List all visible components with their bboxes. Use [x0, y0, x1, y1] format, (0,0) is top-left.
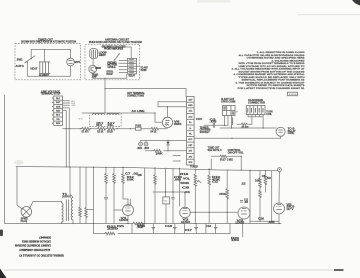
- svg-text:C18: C18: [206, 226, 212, 228]
- capacitor C9: [172, 168, 174, 196]
- junction dots on divider: [66, 166, 67, 167]
- resistor R17: [210, 159, 212, 169]
- resistor R23 100K: [145, 150, 154, 152]
- svg-text:FIL: FIL: [108, 125, 115, 127]
- svg-text:ELEMENT: ELEMENT: [39, 75, 50, 77]
- wire coil to transistor: [92, 58, 94, 65]
- motor B1: [67, 58, 75, 66]
- wire bus: [220, 127, 276, 129]
- wires connector drops: [224, 116, 226, 126]
- wire V3 to V4: [250, 220, 279, 222]
- wire cap bus: [141, 140, 187, 142]
- svg-text:R21: R21: [117, 226, 125, 228]
- fuse F1: [136, 127, 142, 130]
- tube V3: [238, 207, 250, 219]
- wire rectifier plate: [167, 107, 169, 117]
- variable arrow: [114, 53, 120, 60]
- antenna enclosure dashed box: [85, 44, 139, 80]
- component box Z1: [165, 168, 167, 197]
- wire to ant terminal: [136, 65, 139, 67]
- switch SW1: [25, 56, 36, 63]
- svg-text:FOR LATEST PRODUCTION CHANGES: FOR LATEST PRODUCTION CHANGES 330947 R1: [238, 87, 306, 90]
- svg-text:FUSE: FUSE: [135, 125, 141, 127]
- svg-text:R3 2K: R3 2K: [107, 131, 113, 133]
- wire far-left return: [5, 95, 22, 224]
- svg-text:GRN: GRN: [56, 106, 61, 108]
- wire transformer tap: [86, 208, 94, 210]
- wire element feed: [44, 50, 46, 62]
- svg-text:RELAY: RELAY: [129, 75, 136, 78]
- svg-text:R4 1K: R4 1K: [151, 130, 157, 133]
- relay tube E: [276, 127, 285, 136]
- wire bottom bus: [93, 73, 127, 78]
- transformer leads: [61, 222, 63, 224]
- svg-text:WITH VTVM FROM SOCKET TERMINAL: WITH VTVM FROM SOCKET TERMINALS TO B MIN…: [239, 62, 306, 65]
- svg-text:3. ALL VOLTAGES MEASURED WITH: 3. ALL VOLTAGES MEASURED WITH ANTENNA IN…: [232, 68, 306, 71]
- rectifier tube V6: [162, 117, 172, 127]
- wire V2 to V3: [190, 211, 238, 213]
- connector J1: [223, 106, 236, 116]
- svg-text:330947: 330947: [38, 235, 51, 239]
- wire ground rail: [21, 223, 133, 225]
- resistor R9: [113, 167, 115, 173]
- svg-text:BRN: BRN: [56, 123, 61, 125]
- resistor R7: [85, 167, 87, 207]
- wire B- drop: [93, 167, 95, 233]
- part number box: [288, 92, 298, 96]
- svg-text:R1 470: R1 470: [82, 130, 90, 133]
- winding L3: [107, 114, 119, 115]
- resistor R5: [237, 123, 241, 125]
- resistor R13: [226, 170, 228, 189]
- wire drop: [144, 168, 146, 224]
- resistor R21 on rail: [133, 222, 143, 224]
- svg-text:C16: C16: [165, 226, 173, 228]
- svg-text:500K: 500K: [180, 183, 189, 185]
- svg-text:PHONO AMPLIFIER: PHONO AMPLIFIER: [104, 48, 123, 51]
- svg-text:12AB5: 12AB5: [235, 222, 245, 225]
- resistor R16: [264, 171, 266, 175]
- svg-text:SEE NOTE 3: SEE NOTE 3: [208, 150, 223, 152]
- svg-text:COIL: COIL: [266, 114, 272, 116]
- wire antenna lead: [104, 78, 106, 113]
- svg-text:12AV6: 12AV6: [181, 221, 191, 224]
- tube V1: [123, 205, 134, 216]
- svg-text:VOL: VOL: [183, 179, 191, 181]
- scan paper edge bottom: [4, 269, 333, 271]
- svg-text:100K: 100K: [127, 179, 134, 181]
- output transformer T1: [62, 203, 64, 222]
- svg-text:35W4: 35W4: [174, 123, 182, 126]
- svg-text:NOTICE REFER TO SERVICE DATA S: NOTICE REFER TO SERVICE DATA SHEETS: [247, 84, 306, 87]
- wire drop: [249, 171, 251, 224]
- diode CR1: [166, 142, 170, 145]
- terminal strip TS1: [54, 96, 63, 125]
- svg-text:TERM: TERM: [140, 70, 146, 72]
- wire V3 cathode stub: [242, 219, 244, 237]
- winding L2: [93, 114, 105, 115]
- wire drop: [271, 171, 273, 221]
- coil L4 on drop: [232, 118, 233, 125]
- svg-text:5. THIS SCHEMATIC IS SUBJECT T: 5. THIS SCHEMATIC IS SUBJECT TO CHANGE W…: [236, 81, 306, 84]
- resistor R10: [122, 167, 124, 173]
- svg-text:L4: L4: [230, 125, 232, 127]
- heater element HR1: [39, 62, 50, 74]
- svg-text:GENERAL ELECTRIC CO LOUISVILLE: GENERAL ELECTRIC CO LOUISVILLE KY: [19, 254, 64, 258]
- svg-text:12AU6: 12AU6: [119, 219, 129, 222]
- svg-text:.005: .005: [174, 179, 182, 181]
- svg-text:R2 1K: R2 1K: [97, 131, 103, 133]
- svg-text:BLU: BLU: [56, 115, 61, 117]
- wire main B- bus: [16, 167, 278, 171]
- resistor R6: [79, 167, 81, 207]
- svg-text:AC LINE: AC LINE: [132, 110, 146, 113]
- svg-text:MOT: MOT: [75, 62, 81, 64]
- tube V4: [278, 172, 280, 204]
- svg-text:ANT: ANT: [99, 54, 107, 57]
- resistor R8: [105, 167, 107, 173]
- svg-text:CABINET SCHEMATIC DIAGRAM: CABINET SCHEMATIC DIAGRAM: [14, 243, 51, 247]
- wire AC line: [82, 113, 162, 122]
- svg-text:OUTPUT: OUTPUT: [62, 196, 72, 198]
- svg-text:AF2: AF2: [189, 155, 193, 158]
- svg-text:OTHERWISE NOTED AND SPECIFIED: OTHERWISE NOTED AND SPECIFIED HERE: [247, 57, 306, 60]
- svg-text:RED: RED: [56, 111, 61, 113]
- svg-text:TUNER: TUNER: [190, 167, 198, 169]
- svg-text:ON-OFF VOL: ON-OFF VOL: [228, 152, 245, 154]
- svg-text:TERMINAL STRIP: TERMINAL STRIP: [41, 93, 61, 96]
- svg-text:CONNECTOR: CONNECTOR: [248, 102, 265, 104]
- capacitor C3: [204, 124, 213, 126]
- svg-text:C17: C17: [185, 230, 193, 232]
- svg-text:SW1: SW1: [17, 59, 24, 61]
- resistor R11: [154, 168, 156, 175]
- svg-text:BLK: BLK: [56, 98, 61, 100]
- svg-text:ALL CAPACITOR VALUES IN MICROF: ALL CAPACITOR VALUES IN MICROFARADS UNLE…: [239, 54, 306, 57]
- resistor R4: [151, 127, 158, 130]
- ground symbols: [152, 228, 218, 230]
- wire B+ bus: [63, 128, 82, 130]
- svg-text:CATALOG NUMBER 33612: CATALOG NUMBER 33612: [22, 239, 51, 243]
- wire arrows into strip: [173, 155, 180, 157]
- capacitor C11 cluster: [240, 200, 243, 202]
- svg-text:1 MEG: 1 MEG: [227, 159, 233, 161]
- svg-text:AVC: AVC: [188, 138, 193, 141]
- connector J2: [246, 106, 265, 115]
- resistor R15: [259, 190, 262, 197]
- antenna coil L1: [90, 49, 98, 59]
- wire relay feed: [111, 47, 131, 58]
- wire drop: [178, 168, 180, 206]
- svg-text:4 POLE: 4 POLE: [107, 66, 115, 69]
- resistor R19: [208, 169, 210, 175]
- capacitor C5: [104, 196, 108, 198]
- chassis terminal strip TS2: [187, 97, 195, 166]
- wire B- rail: [94, 233, 106, 235]
- svg-text:SPK: SPK: [188, 162, 193, 164]
- svg-text:LINE VOLTAGE 117V AC NO SIGNAL: LINE VOLTAGE 117V AC NO SIGNAL APPLIED T…: [239, 65, 305, 68]
- speaker LS1: [17, 167, 23, 210]
- wire long vertical pair: [63, 111, 67, 167]
- wire V2 plate: [153, 192, 185, 207]
- node ring: [278, 168, 282, 172]
- potentiometer R18: [194, 169, 196, 174]
- scan mark top-right corner: [352, 0, 360, 6]
- scan mark left edge: [0, 230, 3, 237]
- svg-text:4. CONDENSERS MARKED WITH ASTE: 4. CONDENSERS MARKED WITH ASTERISK ARE S…: [234, 73, 306, 76]
- svg-text:R17: R17: [220, 159, 227, 161]
- relay pin wires: [119, 60, 128, 72]
- svg-text:GND: GND: [188, 105, 193, 107]
- scan mark bottom-left corner: [0, 269, 7, 278]
- svg-text:R18: R18: [180, 174, 189, 176]
- resistor R2: [97, 127, 105, 130]
- svg-text:C20: C20: [258, 219, 265, 221]
- svg-text:2N35: 2N35: [95, 68, 101, 70]
- scan dark dash bottom-right: [334, 269, 344, 271]
- svg-text:HEAT: HEAT: [30, 67, 38, 70]
- svg-text:SOCKET SHOWN FROM BOTTOM OF TH: SOCKET SHOWN FROM BOTTOM OF THE CHASSIS: [239, 70, 306, 73]
- scan faint line top-right: [298, 14, 360, 16]
- tube V2: [180, 207, 191, 218]
- svg-text:C12: C12: [212, 182, 219, 184]
- svg-text:SPKR CONN: SPKR CONN: [221, 101, 235, 103]
- wire arrows to line: [63, 101, 69, 105]
- scan smudge top-middle: [197, 0, 230, 3]
- svg-text:100K: 100K: [156, 154, 163, 156]
- junction dots: [80, 128, 81, 129]
- svg-text:CONNECTIONS: CONNECTIONS: [127, 95, 144, 97]
- svg-text:SOCKET: SOCKET: [200, 132, 211, 134]
- svg-text:ELECTRONIC ASSEMBLY: ELECTRONIC ASSEMBLY: [19, 248, 50, 252]
- svg-text:TO RCVR: TO RCVR: [196, 119, 202, 121]
- wire lower bus: [280, 136, 282, 138]
- svg-text:60 C: 60 C: [96, 125, 102, 127]
- filter caps C1 C2: [139, 142, 143, 146]
- svg-text:TYPES AND SHOULD BE REPLACED O: TYPES AND SHOULD BE REPLACED ONLY WITH: [239, 76, 306, 79]
- svg-text:330947: 330947: [289, 94, 299, 96]
- svg-text:470K: 470K: [219, 193, 226, 196]
- resistor R3: [107, 127, 115, 130]
- timer enclosure dashed box: [15, 44, 81, 80]
- resistor R14 15K: [259, 171, 261, 178]
- svg-text:B-: B-: [189, 128, 191, 130]
- resistor R1: [82, 127, 90, 130]
- svg-text:GRN: GRN: [71, 105, 76, 107]
- svg-text:WHEN RADIO AND PHONO ARE PLAYE: WHEN RADIO AND PHONO ARE PLAYED TOGETHER: [89, 41, 142, 44]
- svg-text:IDENTICAL REPLACEMENT PART NUM: IDENTICAL REPLACEMENT PART NUMBERS AS: [242, 79, 306, 82]
- rail link wires: [131, 224, 133, 234]
- wire speaker to transformer: [30, 201, 62, 207]
- power transformer dashed box: [90, 113, 122, 127]
- svg-text:117 V: 117 V: [286, 209, 294, 211]
- wire bottom rail: [27, 63, 70, 77]
- svg-text:COIL: COIL: [288, 133, 296, 135]
- svg-text:AUTO: AUTO: [16, 65, 24, 68]
- relay K1: [128, 58, 137, 74]
- svg-text:AC2: AC2: [188, 115, 192, 118]
- svg-text:1. ALL RESISTORS IN OHMS K=100: 1. ALL RESISTORS IN OHMS K=1000: [257, 51, 306, 54]
- svg-text:PICKUP: PICKUP: [106, 74, 113, 76]
- transistor Q1: [89, 65, 97, 73]
- svg-text:117V: 117V: [79, 118, 84, 120]
- svg-text:2. VOLTAGES MEASURED: 2. VOLTAGES MEASURED: [272, 59, 306, 62]
- resistor R22: [105, 232, 115, 235]
- scan pencil smudge: [15, 160, 24, 165]
- wire strip feed upper: [158, 101, 187, 103]
- svg-text:15K: 15K: [255, 180, 260, 182]
- wire top rail: [31, 50, 70, 59]
